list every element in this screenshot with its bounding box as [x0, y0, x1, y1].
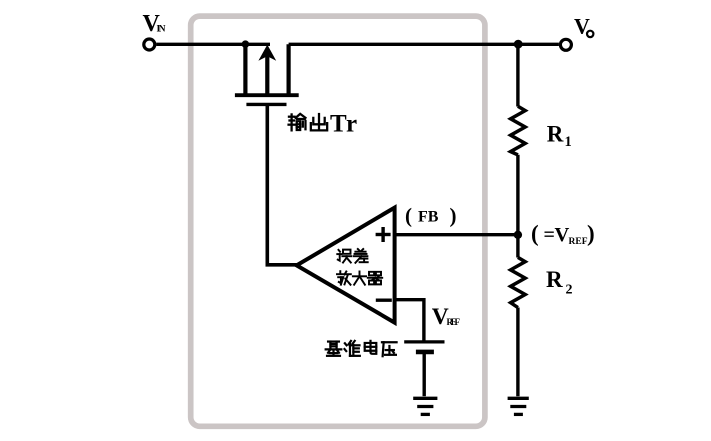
svg-text:2: 2: [566, 283, 573, 298]
svg-text:REF: REF: [447, 317, 461, 327]
svg-text:FB: FB: [418, 209, 439, 226]
svg-text:REF: REF: [569, 237, 588, 247]
svg-text:(: (: [531, 221, 539, 246]
svg-text:IN: IN: [157, 25, 166, 35]
svg-text:R: R: [547, 121, 564, 146]
svg-text:): ): [450, 204, 457, 228]
svg-text:V: V: [555, 224, 570, 246]
svg-text:1: 1: [565, 134, 572, 150]
svg-text:=: =: [544, 224, 555, 246]
svg-text:): ): [587, 221, 595, 246]
svg-text:Tr: Tr: [330, 110, 358, 137]
svg-text:(: (: [405, 204, 412, 228]
svg-text:R: R: [546, 267, 563, 292]
